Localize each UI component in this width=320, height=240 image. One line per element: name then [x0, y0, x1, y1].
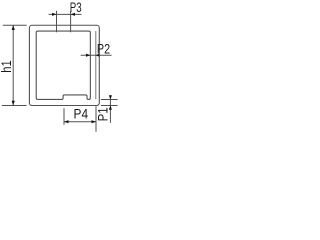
arrowhead P2 left (pointing right) [86, 54, 90, 57]
svg-text:P1: P1 [96, 107, 111, 121]
dimension h1 extension line top [3, 24, 27, 26]
dimension P4 extension line right [95, 106, 97, 131]
internal step line in right wall [95, 31, 97, 99]
svg-text:P2: P2 [97, 41, 110, 56]
arrowhead P1 lower (pointing up) [109, 106, 112, 110]
arrowhead P4 left (pointing left) [64, 120, 69, 123]
dimension P1 extension line lower [101, 105, 118, 107]
svg-text:P3: P3 [70, 0, 82, 15]
slot side line left (P3 extension) [56, 11, 58, 33]
arrowhead P4 right (pointing right) [92, 120, 97, 123]
dimension P2 line [81, 54, 112, 56]
dimension h1 line [12, 25, 14, 105]
dimension P1 extension line upper [101, 98, 118, 100]
arrowhead P3 right (pointing left) [71, 13, 75, 16]
svg-text:P4: P4 [74, 106, 89, 122]
arrowhead h1 down [12, 101, 15, 106]
arrowhead P2 right (pointing left) [96, 54, 100, 57]
outer profile contour [29, 25, 99, 105]
dimension h1 extension line bottom [2, 105, 27, 107]
inner profile contour with bottom platform [36, 31, 90, 99]
svg-text:h1: h1 [0, 60, 14, 73]
arrowhead P1 upper (pointing down) [109, 95, 112, 99]
dimension P1 line [109, 95, 111, 123]
arrowhead h1 up [12, 25, 15, 30]
dimension P4 line [64, 121, 96, 123]
arrowhead P3 left (pointing right) [52, 13, 56, 16]
dimension P3 line [49, 13, 82, 15]
dimension P4 extension line left [63, 108, 65, 124]
slot side line right (P3 extension) [70, 11, 72, 33]
